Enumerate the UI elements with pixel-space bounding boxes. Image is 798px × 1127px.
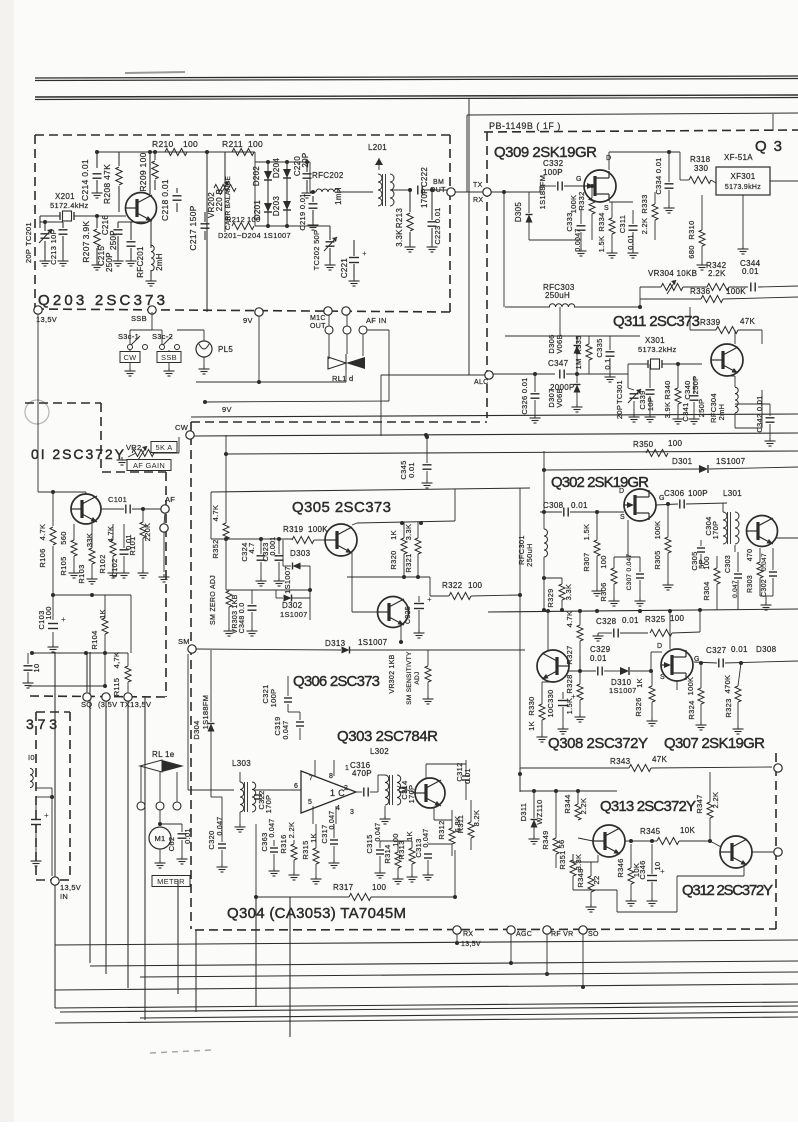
svg-text:R326: R326 [634,697,643,716]
wire TX link [455,191,483,193]
wire Q311 emitter bottom [735,427,762,429]
svg-text:9V: 9V [243,316,253,325]
svg-text:100K: 100K [569,195,578,214]
resistor R328 [577,684,583,700]
capacitor C342 [766,417,775,419]
svg-text:C348 0.0: C348 0.0 [239,603,246,634]
svg-text:6.8K: 6.8K [453,816,462,833]
wire Q313 emitter [597,855,599,862]
svg-text:100: 100 [44,606,53,619]
resistor R351 [570,860,576,876]
resistor R335 [586,344,592,360]
svg-text:C214 0.01: C214 0.01 [80,159,90,201]
svg-text:D311: D311 [519,803,528,822]
wire Q311 collector [734,330,736,344]
svg-text:R310: R310 [687,220,696,239]
svg-text:SSB: SSB [161,353,177,362]
wire Q303 emitter [433,807,435,820]
resistor R307 [594,540,600,556]
svg-text:100: 100 [702,556,711,569]
svg-text:R340: R340 [663,380,672,399]
svg-text:0I 2SC372Y: 0I 2SC372Y [31,446,125,462]
wire 9V rail [191,414,798,417]
diode bridge D201-D204 [255,161,310,163]
svg-text:RFC202: RFC202 [312,171,344,180]
svg-text:S: S [660,674,665,681]
zener D311 [533,791,535,818]
resistor R315 [313,848,319,864]
svg-text:R321: R321 [404,553,413,572]
IF unit outer solid corner [467,113,798,115]
svg-text:C62: C62 [167,837,176,852]
svg-text:0.01: 0.01 [731,645,748,654]
svg-text:C101: C101 [108,495,127,504]
transistor Q312 [720,836,752,868]
capacitor C303 [734,573,742,575]
IC amp triangle [301,771,356,813]
svg-text:R106: R106 [38,548,47,567]
svg-text:8.2K: 8.2K [472,810,481,827]
resistor R347 [707,802,713,818]
FET Q309 [584,170,616,202]
wire mid rail B [226,451,798,454]
wire base net [53,594,131,596]
svg-text:0.01: 0.01 [183,828,192,844]
svg-text:VR304 10KB: VR304 10KB [648,269,697,278]
svg-text:0.047: 0.047 [269,818,276,837]
svg-text:Q305 2SC373: Q305 2SC373 [292,499,392,516]
svg-text:0.047: 0.047 [283,720,290,739]
solid trunk to ALC [468,99,470,375]
svg-text:C333: C333 [565,212,574,231]
resistor R303 [757,562,763,578]
svg-text:3.3K: 3.3K [404,524,413,541]
svg-text:R318: R318 [690,155,711,164]
svg-text:WZ110: WZ110 [535,799,544,824]
bottom bus lines [55,940,798,945]
svg-text:8: 8 [329,773,333,780]
terminal CW [186,431,194,439]
resistor R333 [652,204,658,220]
svg-text:1S188FM: 1S188FM [538,175,547,210]
svg-text:250P: 250P [105,252,114,272]
svg-text:560: 560 [59,531,68,544]
wire R352 column [225,454,227,523]
IC pin wires [314,760,316,776]
wire Q305b emitter [400,626,402,642]
svg-text:0.047: 0.047 [423,828,430,847]
FET Q302 [624,489,656,521]
svg-text:Q311 2SC373: Q311 2SC373 [613,313,701,330]
svg-text:I0I: I0I [28,753,37,762]
wire x520 column [519,488,521,792]
svg-text:220 B: 220 B [215,189,224,211]
svg-text:0.047: 0.047 [375,822,382,841]
svg-text:C102: C102 [110,558,119,577]
capacitor C222 [417,186,419,195]
svg-text:RL1 d: RL1 d [332,374,354,383]
svg-text:AGC: AGC [516,931,532,938]
svg-text:9V: 9V [222,405,232,414]
svg-text:R332: R332 [577,191,586,210]
wire 13.5V IN drop [51,797,53,876]
svg-text:C325: C325 [405,606,412,624]
resistor R306 [611,568,617,584]
svg-text:C307 0.047: C307 0.047 [626,554,633,591]
capacitor C214 [93,173,102,175]
svg-text:470K: 470K [723,675,732,694]
svg-text:C328: C328 [596,617,617,626]
svg-text:D303: D303 [290,549,311,558]
svg-text:0.01: 0.01 [571,501,588,510]
svg-text:+: + [362,249,367,258]
svg-text:5K A: 5K A [155,443,172,452]
wire Q101 top rail [38,491,86,493]
svg-text:D204: D204 [272,158,281,179]
svg-text:C213 10P: C213 10P [49,229,58,265]
svg-text:13,5V: 13,5V [60,883,81,892]
power unit dashed edges [30,696,166,697]
transistor Q311 [711,344,743,376]
svg-text:R213: R213 [395,208,404,229]
resistor R321 [417,522,419,538]
svg-text:1S1007: 1S1007 [609,686,637,695]
capacitor C219 [309,203,318,205]
svg-text:1M: 1M [574,358,583,369]
svg-text:10P: 10P [646,397,655,411]
resistor R104 [102,618,108,634]
IF unit dashed box top [484,130,798,132]
capacitor 10 [24,665,33,667]
capacitor C302 [769,571,777,573]
svg-text:2.2K: 2.2K [287,822,296,839]
transistor Q303 [415,778,445,808]
ALC wire right [493,373,555,375]
svg-text:R102: R102 [98,554,107,573]
resistor R305 [665,537,671,553]
wire AF IN drop [362,333,364,356]
svg-text:TC301: TC301 [615,380,624,404]
transistor Q313 [593,825,625,857]
inductor RFC201 [151,245,154,271]
svg-text:22: 22 [592,876,601,885]
svg-text:56: 56 [557,840,566,849]
balanced modulator unit dashed box [35,134,450,136]
svg-text:RF VR: RF VR [551,931,574,938]
svg-text:100: 100 [391,833,400,846]
resistor R208 [116,167,122,185]
svg-text:V06B: V06B [555,334,564,354]
capacitor C313 [424,853,432,855]
svg-text:SM SENSITIVTY: SM SENSITIVTY [406,651,413,705]
terminal SSB [148,306,156,314]
central unit dashed left edge [190,422,192,929]
svg-text:C323: C323 [261,542,270,561]
svg-text:R351: R351 [558,850,567,869]
svg-text:G: G [576,176,582,183]
svg-text:C327: C327 [706,646,727,655]
capacitor C217 [201,223,210,225]
diode D307 [576,374,578,383]
svg-text:RFC201: RFC201 [136,246,145,278]
resistor R320 [403,522,405,538]
svg-text:4.7K: 4.7K [211,505,220,522]
svg-text:R327: R327 [565,645,574,664]
wire Q303 base [397,786,415,793]
svg-text:330: 330 [694,164,708,173]
svg-text:C306: C306 [664,489,685,498]
svg-text:2.2K: 2.2K [640,218,649,235]
wire base line [211,538,292,540]
svg-text:1S1007: 1S1007 [716,457,746,466]
svg-text:0.01: 0.01 [622,616,639,625]
svg-text:R330: R330 [527,696,536,715]
FET Q307 [661,649,693,681]
punch hole [25,400,49,424]
svg-text:Q313 2SC372Y: Q313 2SC372Y [600,798,697,815]
wire relay common [345,370,347,382]
svg-text:AF: AF [165,495,175,504]
wire AF run [132,508,161,510]
svg-text:+: + [660,867,665,876]
svg-text:R104: R104 [90,630,99,649]
svg-text:C363: C363 [260,832,269,851]
svg-text:R333: R333 [640,194,649,213]
svg-text:5: 5 [308,799,312,806]
svg-text:R320: R320 [389,550,398,569]
svg-text:RX: RX [463,931,473,938]
label box METER [152,876,190,887]
svg-text:+: + [61,615,66,624]
wire 9V dogleg [258,316,260,382]
svg-text:250uH: 250uH [525,543,534,567]
svg-text:L302: L302 [370,747,389,756]
svg-text:100K: 100K [686,677,695,696]
svg-text:XF-51A: XF-51A [724,153,753,162]
svg-text:+: + [571,692,576,701]
svg-text:Q203 2SC373: Q203 2SC373 [38,292,166,309]
svg-text:R344: R344 [563,794,572,813]
svg-text:SM: SM [178,637,190,646]
capacitor C216 [114,229,123,231]
capacitor C62 [160,823,182,825]
capacitor C333 [577,225,586,227]
svg-text:1K: 1K [309,833,318,843]
terminal 13.5V [34,306,42,314]
svg-text:CW: CW [175,423,189,432]
svg-text:2.2K: 2.2K [579,798,588,815]
svg-text:XF301: XF301 [730,172,755,181]
wire SM run [196,649,341,650]
diode D310 [620,667,629,675]
wire Q203 emitter [150,221,152,246]
svg-text:+: + [44,811,49,820]
capacitor C348 [248,605,257,607]
wire Q313 base [578,838,593,841]
wires under terminals [456,934,458,943]
svg-text:R305: R305 [653,550,662,569]
svg-text:4.7: 4.7 [247,542,256,553]
svg-text:D313: D313 [325,639,346,648]
svg-text:10: 10 [546,709,555,718]
resistor R207 [94,229,100,247]
capacitor C363 [270,847,278,849]
svg-text:R323: R323 [724,698,733,717]
lamp PL5 [196,341,212,357]
IF unit dashed left edge [486,132,488,418]
svg-text:C326 0.01: C326 0.01 [520,377,529,414]
svg-text:20P: 20P [24,249,33,263]
svg-text:5172.4kHz: 5172.4kHz [50,201,89,210]
wire top rail Q203 [97,151,255,153]
svg-text:RX: RX [473,197,483,204]
svg-text:R334: R334 [597,212,606,231]
capacitor C317 [330,839,338,841]
svg-text:0.01: 0.01 [626,234,635,250]
svg-text:Q306 2SC373: Q306 2SC373 [293,673,381,690]
wire Q305 collector rail [352,523,357,525]
wire Q312 base [710,841,721,847]
wire Q313 rail [520,790,617,792]
svg-text:L303: L303 [232,759,251,768]
svg-text:4: 4 [336,805,340,812]
transistor Q308 [537,650,569,682]
svg-text:R211: R211 [222,139,243,149]
svg-text:220K: 220K [143,523,152,542]
svg-text:D: D [657,643,662,650]
svg-text:R324: R324 [687,700,696,719]
resistor R314 [395,852,401,868]
svg-text:IN: IN [60,892,68,901]
resistor R346 [628,868,634,884]
wire Q313 block bottom [617,911,677,913]
bottom terminals [453,926,461,934]
resistor R352 [223,523,229,539]
svg-text:170P: 170P [711,521,720,540]
capacitor C218 [173,195,182,197]
svg-text:R115: R115 [112,678,121,697]
wire Q312 collector out [752,851,774,853]
svg-text:Q307 2SK19GR: Q307 2SK19GR [664,735,766,752]
capacitor C102 [120,549,129,551]
svg-text:100: 100 [599,555,608,568]
resistor R102 [110,540,116,556]
svg-text:C303: C303 [725,555,732,573]
svg-text:Q312 2SC372Y: Q312 2SC372Y [682,882,774,899]
svg-text:2.2K: 2.2K [708,269,726,278]
svg-text:R345: R345 [640,827,661,836]
svg-text:R349: R349 [541,830,550,849]
wire Q305a emitter to Q305b base [351,551,353,577]
svg-text:C315: C315 [365,834,374,853]
svg-text:5173.9kHz: 5173.9kHz [725,184,761,191]
svg-text:S: S [620,514,625,521]
svg-text:R304: R304 [702,581,711,600]
resistor R211 [232,149,254,156]
svg-text:250P: 250P [697,399,706,418]
svg-text:Q304 (CA3053) TA7045M: Q304 (CA3053) TA7045M [227,905,407,922]
svg-text:D203: D203 [272,196,281,217]
svg-text:1.5K: 1.5K [582,524,591,541]
label box AF GAIN [127,460,171,471]
resistor R304 [714,568,720,584]
svg-text:R209 100: R209 100 [138,152,148,191]
svg-text:METER: METER [157,877,185,886]
svg-text:470: 470 [747,549,754,562]
svg-text:D304: D304 [192,720,201,739]
svg-text:13,5V: 13,5V [461,941,481,948]
svg-text:C222: C222 [420,167,429,188]
svg-text:100: 100 [670,614,684,623]
svg-text:170P: 170P [264,795,273,814]
capacitor C311 [629,225,638,227]
svg-text:C311: C311 [618,215,627,234]
svg-text:C319: C319 [273,716,282,735]
svg-text:20P: 20P [301,152,310,167]
diode D305 [528,192,530,213]
resistor R330 [539,704,545,720]
svg-text:C219 0.01: C219 0.01 [298,193,307,230]
svg-text:R350: R350 [633,440,654,449]
svg-text:R103: R103 [77,564,86,583]
svg-text:C223 0.01: C223 0.01 [433,207,442,244]
svg-text:C317: C317 [320,824,329,843]
svg-text:SQ: SQ [81,700,92,709]
wire Q302 left column [543,451,545,529]
left power input dashed box [35,712,37,880]
resistor R106 [50,527,56,545]
capacitor C307 [636,573,644,575]
svg-text:250P: 250P [109,230,118,250]
capacitor C323 [275,555,284,557]
svg-text:CW: CW [123,353,137,362]
terminal SM [188,645,196,653]
svg-text:100: 100 [248,139,263,149]
svg-text:Q303 2SC784R: Q303 2SC784R [337,728,439,745]
svg-text:C302: C302 [761,579,768,597]
svg-text:250uH: 250uH [545,291,570,300]
wire Q305b row [347,576,430,578]
svg-text:1K: 1K [98,609,107,619]
svg-text:V06B: V06B [555,388,564,408]
resistor R105 [71,540,77,556]
svg-text:AF IN: AF IN [366,316,387,325]
wire Q312 emitter [743,866,745,876]
relay RL1d [328,357,346,369]
wire Q302 row rail [488,609,798,612]
resistor R334 [609,218,615,234]
resistor R349 [553,838,559,854]
svg-text:D: D [619,488,624,495]
svg-text:TX: TX [473,182,483,189]
svg-text:47K: 47K [652,755,667,764]
svg-text:C342 0.01: C342 0.01 [755,395,764,432]
svg-text:3.9K: 3.9K [663,402,672,419]
transistor Q305b [378,597,409,628]
svg-text:1S1007: 1S1007 [358,638,388,647]
svg-text:L201: L201 [368,143,387,152]
svg-text:2mH: 2mH [717,404,726,421]
wire drops box A [96,152,98,168]
svg-text:D301: D301 [672,457,693,466]
wire emitter row [380,840,412,842]
svg-text:680: 680 [687,245,696,258]
capacitor C315 [376,849,384,851]
svg-text:C320: C320 [207,830,216,849]
svg-text:R336: R336 [690,287,711,296]
transistor Q305a [325,524,357,556]
capacitor C223 [428,221,437,223]
